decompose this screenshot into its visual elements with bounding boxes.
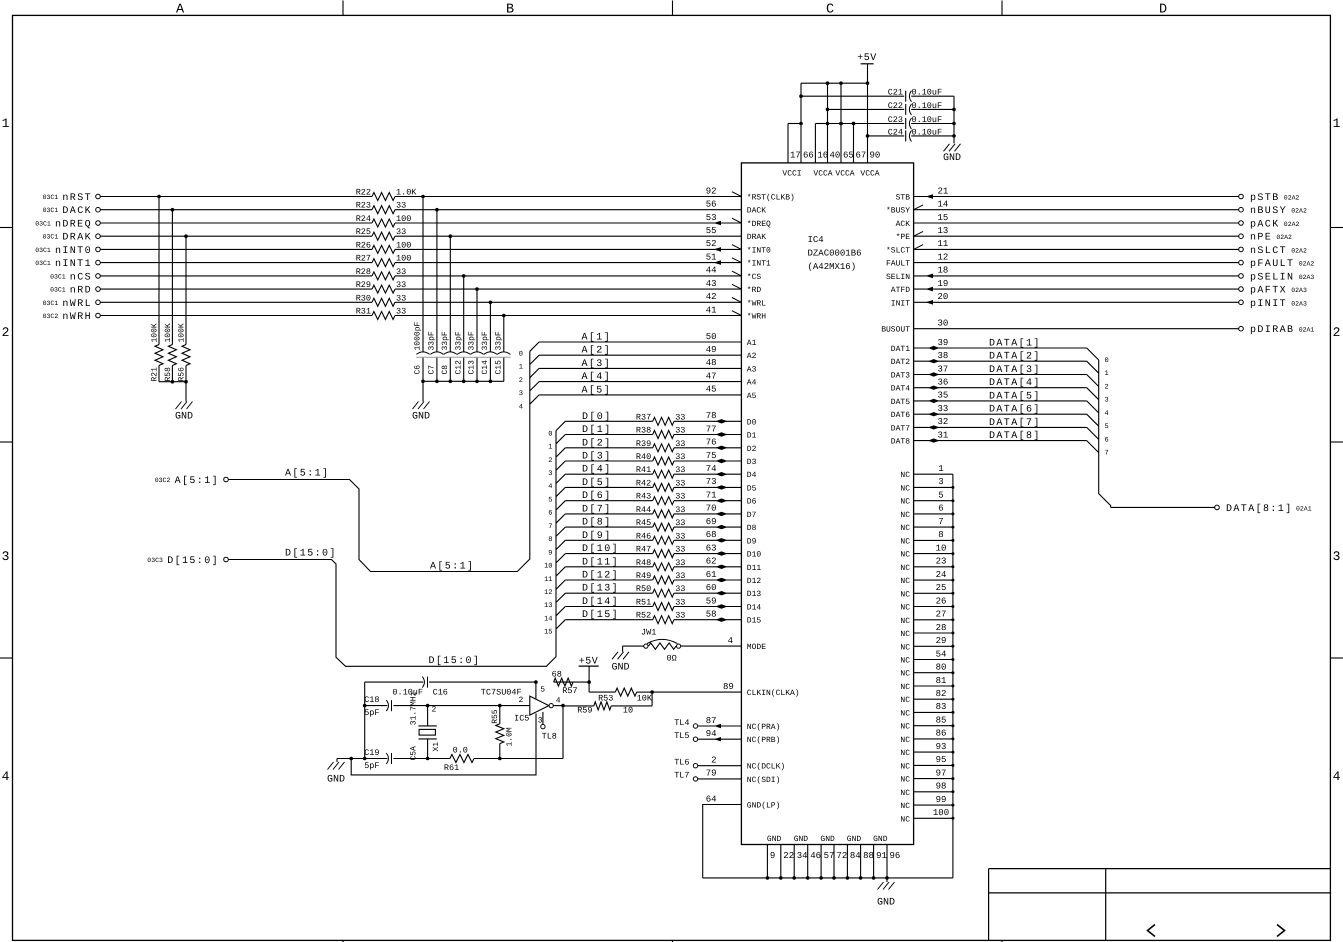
pin name NC 85 (900, 723, 910, 732)
svg-text:R52: R52 (636, 611, 651, 621)
bus bit 4 (1105, 410, 1109, 418)
svg-text:TL8: TL8 (542, 732, 557, 742)
bus bit 1 (519, 364, 523, 372)
svg-text:TC7SU04F: TC7SU04F (481, 687, 522, 697)
pin number 100 (933, 808, 949, 818)
resistor R59 10 (577, 702, 633, 716)
svg-text:TL4: TL4 (674, 718, 689, 728)
svg-text:D1: D1 (747, 432, 757, 441)
svg-text:4: 4 (548, 483, 552, 491)
pin marker ATFD (926, 287, 934, 292)
bus bit 3 (548, 470, 552, 478)
bus D[15:0] route (228, 431, 556, 667)
svg-text:R58: R58 (164, 367, 173, 382)
pin name NC 98 (900, 789, 910, 798)
pin marker *RD (732, 284, 742, 289)
terminal 03C2 A[5:1] (155, 475, 229, 487)
svg-text:1.0M: 1.0M (506, 727, 515, 746)
svg-text:4: 4 (519, 403, 523, 411)
wire nRST to IC (100, 196, 741, 198)
svg-text:BUSOUT: BUSOUT (881, 326, 910, 335)
svg-text:GND: GND (873, 835, 888, 844)
pin number 10 (936, 543, 947, 553)
pin marker *WRL (732, 298, 742, 303)
wire D[15] to IC (674, 619, 741, 621)
svg-text:29: 29 (936, 636, 947, 646)
svg-text:NC(DCLK): NC(DCLK) (747, 763, 785, 772)
svg-text:6: 6 (938, 504, 943, 514)
svg-text:*WRL: *WRL (747, 299, 766, 308)
pin number 79 (706, 769, 717, 779)
pin name *INT1 (747, 260, 771, 269)
wire IC5 pin5 (536, 682, 545, 699)
terminal TL7 (674, 771, 698, 781)
svg-text:65: 65 (843, 151, 854, 161)
pin number 26 (936, 596, 947, 606)
pin name GND(LP) (747, 802, 781, 811)
pin number 56 (706, 200, 717, 210)
pin number 55 (706, 226, 717, 236)
svg-text:GND: GND (767, 835, 782, 844)
resistor R44 33 (636, 505, 686, 518)
pin marker D12 (716, 578, 728, 582)
wire TL7 to IC (698, 778, 742, 780)
pin number 36 (938, 378, 949, 388)
pin name D0 (747, 418, 757, 427)
pin number 13 (938, 226, 949, 236)
svg-text:A4: A4 (747, 379, 757, 388)
bus bit 10 (544, 563, 552, 571)
svg-text:1: 1 (2, 116, 10, 131)
svg-text:D[3]: D[3] (582, 451, 612, 463)
pin name D10 (747, 551, 762, 560)
wire JW1 to ground (622, 646, 624, 652)
svg-text:A[5:1]: A[5:1] (175, 475, 219, 487)
svg-text:NC: NC (900, 590, 910, 599)
wire NC pin 80 (914, 671, 955, 674)
svg-text:NC: NC (900, 696, 910, 705)
svg-text:82: 82 (936, 689, 947, 699)
svg-text:nRD: nRD (70, 286, 92, 297)
pin number 34 (797, 851, 808, 861)
pin name DAT2 (891, 358, 910, 367)
wire nRD to IC (100, 288, 741, 290)
svg-text:DATA[8:1]: DATA[8:1] (1226, 503, 1293, 515)
svg-text:DATA[8]: DATA[8] (989, 430, 1041, 442)
svg-text:2: 2 (432, 706, 437, 715)
svg-text:4: 4 (556, 696, 561, 705)
svg-text:50: 50 (706, 332, 717, 342)
resistor R39 33 (636, 439, 686, 452)
svg-text:pINIT: pINIT (1250, 299, 1287, 310)
terminal 03C1 nCS (50, 272, 100, 283)
svg-text:0Ω: 0Ω (667, 654, 677, 664)
wire D[8] to IC (674, 526, 741, 528)
pin name *SLCT (886, 246, 910, 255)
svg-text:12: 12 (544, 589, 552, 597)
svg-text:D[13]: D[13] (582, 583, 619, 595)
svg-text:R31: R31 (356, 307, 371, 317)
pin marker *RST(CLKB) (732, 192, 742, 197)
pin marker INIT (926, 300, 934, 305)
pin number 5 (938, 491, 943, 501)
svg-text:66: 66 (803, 151, 814, 161)
svg-text:nINT0: nINT0 (55, 246, 92, 257)
capacitor C12 33pF (454, 274, 470, 381)
bus bit 5 (548, 496, 552, 504)
svg-text:IC5: IC5 (514, 714, 529, 724)
pin marker D1 (716, 432, 728, 436)
svg-text:D0: D0 (747, 418, 757, 427)
svg-text:D12: D12 (747, 577, 762, 586)
svg-text:R24: R24 (356, 214, 371, 224)
svg-text:88: 88 (863, 851, 874, 861)
pin number 78 (706, 411, 717, 421)
wire DAT6 (914, 414, 1099, 426)
svg-text:03C1: 03C1 (43, 300, 59, 307)
ground GND cap bank (412, 402, 430, 423)
svg-text:2: 2 (1333, 325, 1341, 340)
svg-text:DAT8: DAT8 (891, 438, 910, 447)
terminal TL4 (674, 718, 698, 728)
svg-text:27: 27 (936, 610, 947, 620)
svg-text:23: 23 (936, 557, 947, 567)
resistor R27 100 (356, 254, 412, 267)
pin marker D2 (716, 446, 728, 450)
label D[0] (582, 411, 612, 423)
resistor R57 68 (552, 670, 578, 696)
svg-text:NC(SDI): NC(SDI) (747, 776, 781, 785)
pin name D4 (747, 471, 757, 480)
svg-text:62: 62 (706, 557, 717, 567)
svg-text:6: 6 (548, 510, 552, 518)
wire pin17 vertical (788, 124, 801, 163)
pin marker *DREQ (714, 218, 742, 225)
svg-text:D[0]: D[0] (582, 411, 612, 423)
svg-text:R30: R30 (356, 293, 371, 303)
svg-text:52: 52 (706, 239, 717, 249)
pin number 19 (938, 279, 949, 289)
svg-text:8: 8 (938, 530, 943, 540)
svg-text:*CS: *CS (747, 273, 762, 282)
svg-text:NC: NC (900, 537, 910, 546)
pin marker DAT7 (928, 425, 940, 429)
wire R21 drop (157, 195, 161, 345)
svg-text:TL5: TL5 (674, 731, 689, 741)
pin number 72 (837, 851, 848, 861)
wire pin90 +5V vertical (866, 64, 870, 163)
pin number 37 (938, 364, 949, 374)
svg-text:38: 38 (938, 351, 949, 361)
svg-text:51: 51 (706, 252, 717, 262)
pin name NC 27 (900, 617, 910, 626)
bus bit 15 (544, 629, 552, 637)
pin name D1 (747, 432, 757, 441)
label A[1] (582, 332, 612, 344)
svg-text:68: 68 (552, 670, 562, 680)
bus bit 13 (544, 602, 552, 610)
svg-text:NC: NC (900, 723, 910, 732)
svg-text:R51: R51 (636, 598, 651, 608)
pin number 3 (938, 477, 943, 487)
pin marker D0 (716, 419, 728, 423)
ground GND JW1 (611, 652, 629, 674)
svg-text:34: 34 (797, 851, 808, 861)
pin name D2 (747, 445, 757, 454)
svg-text:98: 98 (936, 782, 947, 792)
svg-text:4: 4 (1105, 410, 1109, 418)
pin name DAT8 (891, 438, 910, 447)
pin number 49 (706, 345, 717, 355)
pin number 17 (790, 151, 801, 161)
wire NC pin 86 (914, 737, 955, 740)
svg-text:11: 11 (544, 576, 552, 584)
resistor R26 100 (356, 240, 412, 253)
resistor R25 33 (356, 227, 407, 240)
bus bit 4 (519, 403, 523, 411)
wire DATA[8:1] to terminal (1111, 506, 1215, 508)
pin marker D7 (716, 512, 728, 516)
capacitor C23 0.10uF (828, 115, 955, 129)
svg-text:4: 4 (1333, 769, 1341, 784)
svg-text:R56: R56 (177, 367, 186, 382)
pin name A3 (747, 365, 757, 374)
svg-text:71: 71 (706, 491, 717, 501)
pin number 3 IC5 (538, 717, 543, 726)
pin name FAULT (886, 260, 910, 269)
svg-text:1.0K: 1.0K (396, 188, 417, 198)
svg-text:nSLCT: nSLCT (1250, 246, 1287, 257)
svg-text:36: 36 (938, 378, 949, 388)
svg-text:*SLCT: *SLCT (886, 246, 910, 255)
svg-text:pDIRAB: pDIRAB (1250, 325, 1294, 336)
pin number 20 (938, 292, 949, 302)
pin marker *CS (732, 271, 742, 276)
label D[11] (582, 556, 619, 568)
svg-text:D15: D15 (747, 617, 762, 626)
svg-text:03C1: 03C1 (50, 287, 66, 294)
wire D[8] stub (556, 527, 653, 536)
svg-text:02A3: 02A3 (1291, 287, 1307, 294)
wire cap bank rail (421, 380, 504, 402)
bus bit 4 (548, 483, 552, 491)
svg-text:pFAULT: pFAULT (1250, 259, 1294, 270)
pin name *PE (896, 233, 911, 242)
svg-text:92: 92 (706, 186, 717, 196)
pin number 64 (706, 794, 717, 804)
svg-text:13: 13 (938, 226, 949, 236)
pin marker D14 (716, 604, 728, 608)
svg-text:93: 93 (936, 742, 947, 752)
pin marker D10 (716, 551, 728, 555)
wire DAT3 (914, 375, 1099, 387)
wire nWRH to IC (100, 315, 741, 317)
wire pin65 vertical (839, 81, 843, 163)
pin name NC 95 (900, 762, 910, 771)
svg-text:R45: R45 (636, 518, 651, 528)
svg-text:NC: NC (900, 551, 910, 560)
wire pin40 vertical (826, 81, 830, 163)
wire ATFD to terminal (914, 288, 1239, 290)
pin marker D13 (716, 591, 728, 595)
svg-text:VCCA: VCCA (835, 170, 854, 179)
wire NC pin 85 (914, 724, 955, 727)
svg-text:39: 39 (938, 338, 949, 348)
label D[12] (582, 570, 619, 582)
svg-text:9: 9 (548, 549, 552, 557)
svg-text:14: 14 (544, 616, 552, 624)
wire A[3] stub (530, 368, 742, 377)
resistor R56 100K (177, 323, 190, 382)
terminal 03C1 nWRL (43, 299, 101, 310)
resistor R22 1.0K (356, 188, 418, 201)
pin name NC 1 (900, 471, 910, 480)
pin number 62 (706, 557, 717, 567)
wire NC pin 1 (914, 473, 953, 475)
pin name NC 26 (900, 604, 910, 613)
wire D[5] to IC (674, 486, 741, 488)
wire bottom ground rail (703, 877, 953, 879)
resistor R46 33 (636, 531, 686, 544)
pin name DAT1 (891, 345, 910, 354)
title block (989, 869, 1331, 941)
svg-text:DAT1: DAT1 (891, 345, 910, 354)
pin number 76 (706, 438, 717, 448)
wire NC pin 23 (914, 565, 955, 568)
svg-text:A[5]: A[5] (582, 384, 612, 396)
ground GND bottom rail (877, 878, 895, 909)
bus bit 1 (1105, 370, 1109, 378)
bus bit 12 (544, 589, 552, 597)
svg-text:C15: C15 (494, 360, 503, 375)
wire osc bottom row (337, 757, 563, 761)
pin name DRAK (747, 233, 766, 242)
svg-text:R40: R40 (636, 452, 651, 462)
svg-text:D10: D10 (747, 551, 762, 560)
pin name ATFD (891, 286, 910, 295)
bus bit 2 (1105, 384, 1109, 392)
pin name D5 (747, 484, 757, 493)
svg-text:03C1: 03C1 (43, 194, 59, 201)
pin marker D6 (716, 499, 728, 503)
svg-text:41: 41 (706, 305, 717, 315)
svg-text:C12: C12 (454, 360, 463, 375)
svg-text:CLKIN(CLKA): CLKIN(CLKA) (747, 689, 800, 698)
svg-text:NC: NC (900, 630, 910, 639)
wire A[2] stub (530, 355, 742, 364)
svg-text:D[2]: D[2] (582, 437, 612, 449)
svg-text:40: 40 (830, 151, 841, 161)
svg-text:0.10uF: 0.10uF (912, 88, 943, 98)
svg-text:A[3]: A[3] (582, 358, 612, 370)
svg-text:75: 75 (706, 451, 717, 461)
svg-text:91: 91 (876, 851, 887, 861)
pin marker SELIN (926, 274, 934, 279)
pin number 35 (938, 391, 949, 401)
svg-text:pSTB: pSTB (1250, 193, 1280, 204)
svg-text:33pF: 33pF (468, 331, 477, 350)
pin name GND 2 (794, 835, 809, 844)
capacitor C15 33pF (494, 314, 510, 382)
wire NC pin 83 (914, 711, 955, 714)
svg-text:02A2: 02A2 (1299, 261, 1315, 268)
pin name NC(PRA) (747, 723, 781, 732)
svg-text:24: 24 (936, 570, 947, 580)
pin number 12 (938, 252, 949, 262)
wire D[2] to IC (674, 447, 741, 449)
svg-text:R25: R25 (356, 227, 371, 237)
svg-text:12: 12 (938, 252, 949, 262)
svg-text:31.7MHz: 31.7MHz (410, 691, 419, 725)
svg-text:5: 5 (540, 686, 545, 695)
pin number 33 (938, 404, 949, 414)
svg-text:76: 76 (706, 438, 717, 448)
pin marker DAT3 (928, 372, 940, 376)
svg-text:GND: GND (611, 663, 629, 674)
pin marker NC(PRA) (714, 724, 721, 728)
svg-text:70: 70 (706, 504, 717, 514)
pin number 45 (706, 385, 717, 395)
wire ACK to terminal (914, 222, 1239, 224)
label D[13] (582, 583, 619, 595)
svg-text:DAT5: DAT5 (891, 398, 910, 407)
pin name *WRH (747, 313, 766, 322)
svg-text:pACK: pACK (1250, 220, 1280, 231)
pin number 31 (938, 430, 949, 440)
pin name D6 (747, 498, 757, 507)
svg-text:NC: NC (900, 657, 910, 666)
svg-text:97: 97 (936, 768, 947, 778)
label D[4] (582, 464, 612, 476)
svg-text:37: 37 (938, 364, 949, 374)
pin number 95 (936, 755, 947, 765)
svg-text:03C2: 03C2 (155, 477, 171, 484)
svg-text:0: 0 (1105, 357, 1109, 365)
svg-text:+5V: +5V (857, 53, 877, 64)
terminal pACK 02A2 (1239, 220, 1300, 231)
ground GND oscillator (327, 759, 345, 786)
pin marker *WRH (732, 311, 742, 316)
resistor R48 33 (636, 558, 686, 571)
svg-text:7: 7 (1105, 450, 1109, 458)
wire NC pin 100 (914, 817, 955, 820)
svg-text:R49: R49 (636, 571, 651, 581)
wire GND pin 72 (832, 845, 836, 880)
wire D[5] stub (556, 487, 653, 496)
bus bit 0 (519, 351, 523, 359)
pin number 81 (936, 676, 947, 686)
svg-text:NC: NC (900, 709, 910, 718)
svg-text:R28: R28 (356, 267, 371, 277)
svg-text:74: 74 (706, 464, 717, 474)
terminal TL6 (674, 758, 698, 768)
svg-text:*INT1: *INT1 (747, 260, 771, 269)
svg-text:D7: D7 (747, 511, 757, 520)
pin marker DAT6 (928, 412, 940, 416)
svg-text:DATA[5]: DATA[5] (989, 390, 1041, 402)
svg-text:19: 19 (938, 279, 949, 289)
nav chevron left (1148, 925, 1156, 937)
svg-text:NC: NC (900, 802, 910, 811)
svg-text:*DREQ: *DREQ (747, 220, 771, 229)
wire D[6] stub (556, 501, 653, 510)
pin name NC 25 (900, 590, 910, 599)
svg-text:99: 99 (936, 795, 947, 805)
svg-text:NC: NC (900, 749, 910, 758)
bus bit 14 (544, 616, 552, 624)
svg-text:DATA[6]: DATA[6] (989, 404, 1041, 416)
wire nWRL to IC (100, 301, 741, 303)
